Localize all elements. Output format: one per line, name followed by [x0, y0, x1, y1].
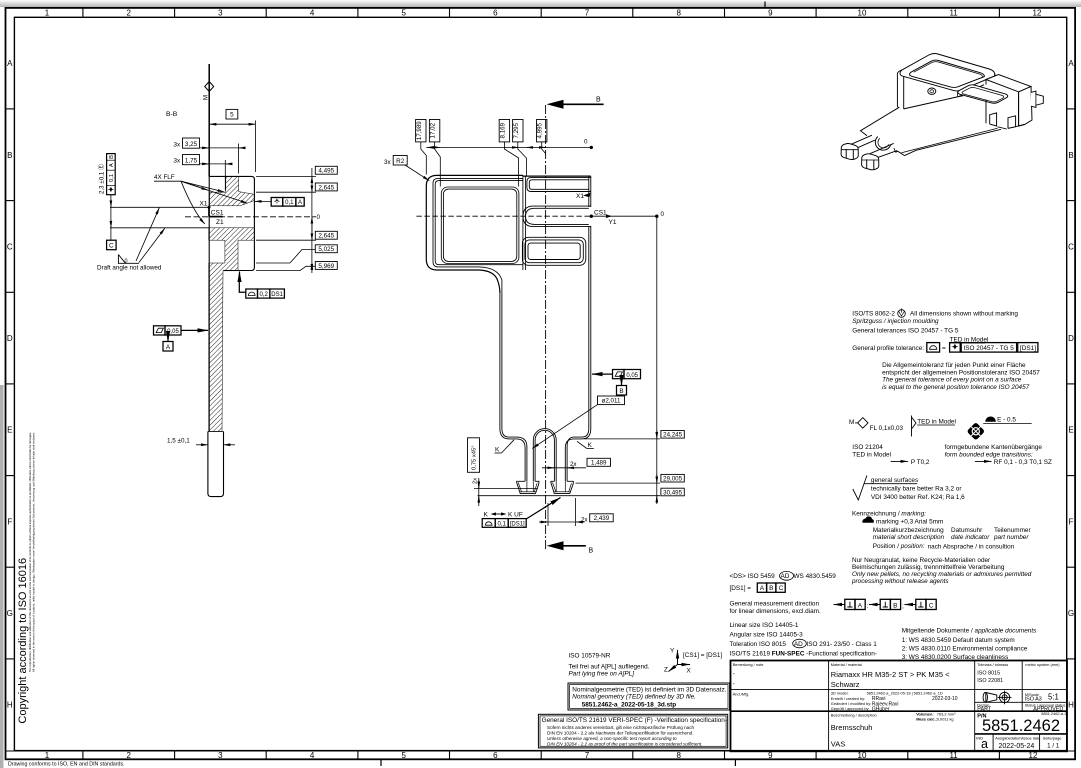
- svg-text:C: C: [779, 585, 784, 592]
- svg-text:technically bare better Ra 3,2: technically bare better Ra 3,2 or: [871, 485, 962, 492]
- svg-text:2,439: 2,439: [594, 515, 610, 522]
- svg-text:29,005: 29,005: [663, 476, 682, 483]
- svg-text:7: 7: [585, 751, 590, 760]
- svg-text:Copyright according to ISO 160: Copyright according to ISO 16016: [17, 558, 29, 724]
- svg-text::: :: [867, 603, 869, 610]
- svg-text:ISO 291- 23/50 - Class 1: ISO 291- 23/50 - Class 1: [807, 641, 878, 648]
- svg-text:RF 0,1 - 0,3 T0,1 SZ: RF 0,1 - 0,3 T0,1 SZ: [994, 459, 1052, 466]
- svg-text:General profile tolerance:: General profile tolerance:: [852, 345, 924, 352]
- svg-text:marking +0,3 Arial 5mm: marking +0,3 Arial 5mm: [876, 518, 943, 525]
- svg-text:General ISO/TS 21619 VERI-SPEC: General ISO/TS 21619 VERI-SPEC (F) -Veri…: [542, 717, 727, 724]
- svg-text:24,245: 24,245: [663, 432, 682, 439]
- svg-text:2: WS 4830.0110 Environmental: 2: WS 4830.0110 Environmental compliance: [902, 645, 1028, 652]
- svg-text:ISO A3: ISO A3: [1025, 696, 1042, 702]
- svg-text:0,1: 0,1: [498, 521, 507, 527]
- svg-text:GHuber: GHuber: [872, 706, 890, 712]
- svg-text:Drawing conforms to ISO, EN an: Drawing conforms to ISO, EN and DIN stan…: [8, 762, 125, 768]
- svg-text:Z1: Z1: [216, 219, 224, 226]
- svg-text:Bemerkung / note: Bemerkung / note: [733, 662, 764, 667]
- svg-text:General measurement direction: General measurement direction: [730, 601, 820, 608]
- svg-text:A: A: [760, 585, 765, 592]
- svg-text:C: C: [7, 242, 13, 251]
- svg-text:0,05: 0,05: [626, 373, 638, 379]
- svg-text:Bremsschuh: Bremsschuh: [831, 723, 873, 732]
- svg-text:Materialkurzbezeichnung: Materialkurzbezeichnung: [873, 527, 944, 534]
- svg-text:R2: R2: [396, 158, 405, 165]
- svg-text:ISO 21204: ISO 21204: [852, 444, 883, 451]
- svg-text:7,295: 7,295: [513, 122, 520, 138]
- svg-text:-: -: [733, 672, 735, 678]
- svg-text:0,0011 kg: 0,0011 kg: [937, 717, 954, 722]
- svg-text:5,969: 5,969: [318, 263, 334, 270]
- svg-text:Tolmass / tolmass: Tolmass / tolmass: [977, 662, 1008, 667]
- svg-text:Teilenummer: Teilenummer: [994, 527, 1031, 534]
- svg-text:FL 0,1x0,03: FL 0,1x0,03: [870, 425, 904, 432]
- svg-text:Riamaxx HR M35-2 ST > PK M35: Riamaxx HR M35-2 ST > PK M35 <: [831, 670, 950, 679]
- svg-text:2: 2: [126, 751, 131, 760]
- svg-text:B-B: B-B: [166, 111, 178, 118]
- svg-text:is equal to the general positi: is equal to the general position toleran…: [882, 384, 1030, 391]
- svg-text:D: D: [7, 334, 13, 343]
- svg-text:3x: 3x: [384, 159, 392, 166]
- svg-text:8: 8: [676, 751, 681, 760]
- svg-text:-: -: [733, 682, 735, 688]
- svg-text:K UF: K UF: [508, 512, 523, 519]
- svg-text:for linear dimensions, excl.di: for linear dimensions, excl.diam.: [730, 608, 822, 615]
- svg-text:C: C: [929, 602, 934, 609]
- svg-text:3: 3: [218, 8, 223, 17]
- svg-text:VAS: VAS: [831, 739, 845, 748]
- svg-text:DIN EN 10204 - 2.2 als Nachwei: DIN EN 10204 - 2.2 als Nachweis der Teil…: [547, 731, 693, 736]
- svg-text:3x: 3x: [174, 142, 182, 149]
- svg-text:Die Allgemeintoleranz für jede: Die Allgemeintoleranz für jeden Punkt ei…: [882, 362, 1026, 369]
- svg-text:X1: X1: [576, 193, 584, 200]
- svg-text:5:1: 5:1: [1048, 693, 1059, 702]
- svg-text:CS1: CS1: [211, 209, 224, 216]
- svg-text:2x: 2x: [570, 461, 577, 468]
- svg-text:0,75 x45°: 0,75 x45°: [472, 445, 478, 470]
- svg-text:ISO/TS 21619 FUN-SPEC -Funct: ISO/TS 21619 FUN-SPEC -Functional specif…: [730, 650, 877, 657]
- svg-text:<DS> ISO 5459: <DS> ISO 5459: [730, 573, 776, 580]
- svg-text:Only new pellets, no recycling: Only new pellets, no recycling materials…: [852, 571, 1032, 578]
- svg-text:7: 7: [585, 8, 590, 17]
- svg-text:0,1: 0,1: [285, 200, 294, 206]
- svg-text:WS 4830.5459: WS 4830.5459: [794, 573, 837, 580]
- svg-text:B: B: [1068, 151, 1073, 160]
- svg-text:5: 5: [401, 8, 406, 17]
- svg-text:CS1: CS1: [594, 210, 607, 217]
- svg-text:E - 0.5: E - 0.5: [997, 417, 1016, 424]
- svg-text:Toleration ISO 8015: Toleration ISO 8015: [730, 641, 787, 648]
- svg-text:Änd./Mfg.: Änd./Mfg.: [733, 691, 750, 696]
- svg-text:D: D: [1068, 334, 1074, 343]
- svg-text:VDI 3400 better Ref. K24; Ra 1: VDI 3400 better Ref. K24; Ra 1,6: [871, 494, 965, 501]
- svg-text:5: 5: [230, 112, 234, 119]
- svg-text:E: E: [1068, 426, 1073, 435]
- svg-text:Linear size ISO 14405-1: Linear size ISO 14405-1: [730, 622, 799, 629]
- svg-text:X: X: [687, 668, 692, 675]
- svg-text:C: C: [1068, 242, 1074, 251]
- svg-text:DS1: DS1: [271, 292, 283, 298]
- svg-text:2022-05-24: 2022-05-24: [998, 743, 1034, 750]
- svg-text:17,989: 17,989: [416, 121, 423, 140]
- svg-text:9: 9: [768, 8, 773, 17]
- svg-text:K: K: [588, 442, 593, 449]
- svg-text:metric system (mm): metric system (mm): [1025, 662, 1060, 667]
- svg-text:5851.2462: 5851.2462: [982, 717, 1060, 735]
- svg-text:9: 9: [768, 751, 773, 760]
- svg-text:The general tolerance of every: The general tolerance of every point on …: [882, 377, 1022, 384]
- svg-text:11: 11: [949, 8, 958, 17]
- svg-text:=: =: [942, 345, 946, 352]
- svg-text:All rights reserved in the eve: All rights reserved in the event of the …: [32, 432, 36, 672]
- svg-text:AD: AD: [794, 641, 803, 648]
- svg-text:material short description: material short description: [873, 534, 945, 541]
- svg-text:[DS1]: [DS1]: [1020, 345, 1036, 352]
- svg-text:2,645: 2,645: [318, 233, 334, 240]
- svg-text:;: ;: [902, 603, 904, 610]
- svg-text:AD: AD: [781, 573, 790, 580]
- svg-text:Nominal geometry (TED) defined: Nominal geometry (TED) defined by 3D fil…: [572, 694, 696, 701]
- svg-text:0: 0: [125, 258, 128, 264]
- svg-text:date indicator: date indicator: [951, 534, 990, 541]
- svg-text:H: H: [1068, 701, 1074, 710]
- svg-text:Mitgeltende Dokumente / applic: Mitgeltende Dokumente / applicable docum…: [902, 628, 1037, 635]
- svg-text:General tolerances ISO 20457 -: General tolerances ISO 20457 - TG 5: [852, 328, 959, 335]
- svg-text:M: M: [203, 95, 209, 100]
- svg-text:F: F: [1069, 517, 1074, 526]
- svg-text:0: 0: [317, 214, 321, 221]
- svg-text:A: A: [858, 602, 863, 609]
- svg-text:12: 12: [1033, 8, 1042, 17]
- svg-text:5851.2462-a_2022-05-18_3d.stp: 5851.2462-a_2022-05-18_3d.stp: [582, 701, 677, 708]
- svg-text:X1: X1: [200, 200, 208, 207]
- svg-text:0,2: 0,2: [260, 292, 269, 298]
- svg-text:0,05: 0,05: [167, 329, 179, 335]
- svg-text:Nur Neugranulat, keine Recycle: Nur Neugranulat, keine Recycle-Materiali…: [852, 557, 991, 564]
- svg-text:1 / 1: 1 / 1: [1047, 742, 1060, 749]
- svg-text:Teil frei auf A[PL] aufliegend: Teil frei auf A[PL] aufliegend.: [569, 663, 650, 670]
- svg-text:B: B: [596, 97, 601, 104]
- svg-text:a: a: [981, 737, 988, 751]
- svg-text:ISO 22081: ISO 22081: [977, 678, 1003, 684]
- svg-text:processing without release age: processing without release agents: [851, 578, 949, 585]
- svg-text:2022-03-10: 2022-03-10: [932, 696, 958, 702]
- svg-text:F: F: [7, 517, 12, 526]
- svg-text:0,1: 0,1: [109, 174, 115, 182]
- svg-text:Nominalgeometrie (TED) ist def: Nominalgeometrie (TED) ist definiert im …: [572, 687, 726, 694]
- svg-text:11: 11: [949, 751, 958, 760]
- svg-text:17,02: 17,02: [430, 122, 437, 138]
- svg-text:TED in Model: TED in Model: [852, 451, 891, 458]
- svg-text:part number: part number: [993, 534, 1029, 541]
- svg-text:1: 1: [45, 751, 50, 760]
- svg-text:Geprüft / approved by:: Geprüft / approved by:: [831, 706, 870, 711]
- svg-text:5851.2462-a_2022-05-18 | 585: 5851.2462-a_2022-05-18 | 5851.2462-a_1D: [867, 690, 943, 695]
- svg-text:0: 0: [661, 211, 665, 218]
- svg-text:4,495: 4,495: [318, 168, 334, 175]
- svg-text:Z: Z: [664, 667, 668, 674]
- svg-text:0: 0: [584, 139, 588, 146]
- svg-text:Beimischungen zulässig, trennm: Beimischungen zulässig, trennmittelfreie…: [852, 564, 1005, 571]
- svg-text:form bounded edge transitions:: form bounded edge transitions:: [945, 451, 1033, 458]
- svg-text:H: H: [7, 701, 13, 710]
- svg-text:Position / position:: Position / position:: [873, 543, 925, 550]
- svg-text:4,995: 4,995: [537, 122, 544, 138]
- svg-text:A: A: [298, 200, 302, 206]
- svg-text:3D model:: 3D model:: [831, 690, 849, 695]
- svg-text:ISO 20457 - TG 5: ISO 20457 - TG 5: [964, 345, 1015, 352]
- svg-text:M: M: [849, 419, 854, 426]
- svg-text:G: G: [1068, 609, 1074, 618]
- svg-text:2x: 2x: [473, 478, 479, 484]
- svg-text:ISO 10579-NR: ISO 10579-NR: [569, 653, 611, 660]
- svg-text:A: A: [109, 163, 115, 167]
- svg-text:PART: PART: [977, 707, 992, 713]
- svg-text:formgebundene Kantenübergänge: formgebundene Kantenübergänge: [945, 444, 1043, 451]
- svg-text:Mass calc.:: Mass calc.:: [916, 717, 937, 722]
- svg-text:4: 4: [310, 751, 315, 760]
- svg-text:1,489: 1,489: [591, 460, 607, 467]
- svg-text:8: 8: [676, 8, 681, 17]
- svg-text:10: 10: [858, 8, 867, 17]
- svg-text:2,645: 2,645: [318, 184, 334, 191]
- svg-text:[DS1] =: [DS1] =: [730, 585, 752, 592]
- svg-text:8,169: 8,169: [499, 122, 506, 138]
- svg-text:3: 3: [218, 751, 223, 760]
- svg-text:5: 5: [401, 751, 406, 760]
- svg-text:1: 1: [45, 8, 50, 17]
- svg-text:3,25: 3,25: [185, 141, 198, 148]
- svg-text:Draft angle not allowed: Draft angle not allowed: [97, 265, 162, 272]
- svg-text:P T0,2: P T0,2: [911, 459, 930, 466]
- svg-text:Y: Y: [670, 648, 675, 655]
- svg-text:Part lying free on A[PL]: Part lying free on A[PL]: [569, 671, 635, 678]
- svg-text:Sofern nichts anderes vereinba: Sofern nichts anderes vereinbart, gilt e…: [547, 725, 695, 730]
- svg-text:Y1: Y1: [609, 219, 617, 226]
- svg-text:4: 4: [310, 8, 315, 17]
- svg-text:Unless otherwise agreed, a non: Unless otherwise agreed, a non-specific …: [547, 736, 677, 741]
- svg-text:The reproduction, distribution: The reproduction, distribution and utili…: [28, 432, 32, 672]
- svg-text:[DS1]: [DS1]: [510, 521, 525, 527]
- svg-text:DIN EN 10204 - 2.2 as proof of: DIN EN 10204 - 2.2 as proof of the part …: [547, 742, 703, 747]
- svg-text:ISO/TS 8062-2: ISO/TS 8062-2: [852, 311, 895, 318]
- svg-text:4X FLF: 4X FLF: [154, 174, 175, 181]
- svg-text:nach Absprache / in consultion: nach Absprache / in consultion: [928, 544, 1015, 551]
- svg-text:B: B: [893, 602, 897, 609]
- svg-text:5,025: 5,025: [318, 246, 334, 253]
- svg-text:12: 12: [1029, 751, 1038, 760]
- svg-text:E: E: [7, 426, 12, 435]
- svg-text:6: 6: [493, 8, 498, 17]
- svg-text:B: B: [619, 388, 623, 395]
- svg-text:K: K: [484, 512, 489, 519]
- svg-text:K: K: [495, 447, 500, 454]
- svg-text:2,3 ±0,1 Ⓔ: 2,3 ±0,1 Ⓔ: [98, 164, 106, 194]
- svg-text:ø2,011: ø2,011: [602, 398, 621, 405]
- svg-text:TED in Model: TED in Model: [917, 419, 956, 426]
- svg-text:Spritzguss / injection mouldin: Spritzguss / injection moulding: [852, 318, 939, 325]
- svg-text:B: B: [769, 585, 773, 592]
- svg-text:All dimensions shown without m: All dimensions shown without marking: [910, 311, 1018, 318]
- svg-text:1: WS 4830.5459 Default datum: 1: WS 4830.5459 Default datum system: [902, 637, 1015, 644]
- svg-text:1,5 ±0,1: 1,5 ±0,1: [167, 438, 190, 445]
- svg-text:3x: 3x: [174, 158, 182, 165]
- svg-text:Angular size ISO 14405-3: Angular size ISO 14405-3: [730, 631, 804, 638]
- svg-text:A: A: [7, 59, 13, 68]
- svg-text:general surfaces: general surfaces: [871, 477, 918, 484]
- svg-text:Seite/page: Seite/page: [1043, 736, 1062, 741]
- svg-text:30,495: 30,495: [663, 489, 682, 496]
- svg-text:G: G: [7, 609, 13, 618]
- svg-text:Material / material: Material / material: [831, 662, 862, 667]
- svg-text:1,75: 1,75: [185, 157, 198, 164]
- svg-text:Ausgabedatum/issue date: Ausgabedatum/issue date: [995, 736, 1040, 741]
- svg-text:APPROVED: APPROVED: [1033, 707, 1063, 713]
- svg-text:A: A: [1068, 59, 1074, 68]
- svg-text:Beschreibung / description: Beschreibung / description: [831, 713, 877, 718]
- svg-text:B: B: [109, 155, 115, 159]
- svg-text:Schwarz: Schwarz: [831, 680, 860, 689]
- svg-text:6: 6: [493, 751, 498, 760]
- svg-text:Datumsuhr: Datumsuhr: [951, 527, 983, 534]
- svg-text:C: C: [109, 243, 114, 250]
- svg-text:Kennzeichnung / marking:: Kennzeichnung / marking:: [852, 510, 926, 517]
- svg-text:2: 2: [126, 8, 131, 17]
- svg-text:entspricht der allgemeinen Pos: entspricht der allgemeinen Positionstole…: [882, 369, 1040, 376]
- svg-text:ISO 8015: ISO 8015: [977, 671, 1000, 677]
- svg-text:10: 10: [858, 751, 867, 760]
- svg-text:[CS1] = [DS1]: [CS1] = [DS1]: [683, 652, 722, 659]
- svg-text:B: B: [589, 548, 594, 555]
- svg-text:B: B: [7, 151, 12, 160]
